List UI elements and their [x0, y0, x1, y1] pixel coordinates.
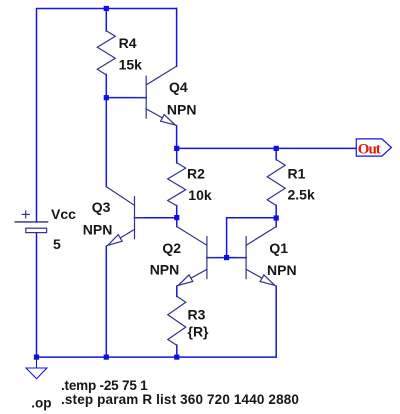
wire node between R4 and Q3 collector [105, 98, 107, 187]
junction bottom rail / Q3 emitter [104, 355, 109, 360]
wire Q4 collector riser [176, 9, 178, 67]
junction R1 bottom / Q1 collector [274, 215, 279, 220]
junction R4 bottom / Q4 base [104, 95, 109, 100]
wire Q4 emitter drop [176, 126, 178, 149]
svg-text:Q2: Q2 [162, 240, 181, 256]
wire bottom rail and Q1 emitter drop [37, 286, 277, 357]
wire Q4 base [106, 97, 146, 99]
svg-text:.step param R list 360 720 144: .step param R list 360 720 1440 2880 [61, 392, 299, 407]
transistor Q3 (mirrored) [106, 187, 143, 247]
wire R2 bottom lead [176, 206, 178, 218]
junction bottom rail / R3 bottom [174, 355, 179, 360]
svg-text:Q3: Q3 [92, 199, 111, 215]
wire Q1 collector riser [275, 218, 277, 227]
svg-text:R1: R1 [288, 166, 306, 182]
svg-text:Out: Out [358, 142, 381, 158]
wire left rail lower [36, 233, 38, 357]
svg-text:Q1: Q1 [269, 240, 288, 256]
wire Q3 emitter drop [105, 246, 107, 357]
svg-text:2.5k: 2.5k [288, 187, 315, 203]
out port flag [356, 139, 391, 156]
wire Q2 Q1 bases [207, 257, 246, 259]
resistor R3 [168, 296, 186, 345]
wire R4 top lead [105, 9, 107, 32]
wire R4 bottom lead [105, 75, 107, 98]
ground [26, 357, 47, 379]
junction Q4 emitter / R2 top [174, 146, 179, 151]
svg-text:Q4: Q4 [169, 79, 188, 95]
junction top rail / R4 top [104, 6, 109, 11]
svg-text:15k: 15k [119, 57, 143, 73]
svg-text:5: 5 [53, 236, 61, 252]
svg-text:NPN: NPN [83, 221, 113, 237]
wire bases tee [227, 218, 277, 258]
wire Q2 emitter to R3 [176, 286, 178, 296]
resistor R1 [267, 160, 285, 206]
wire Q3 base [135, 217, 177, 219]
wire R3 bottom lead [176, 345, 178, 357]
junction R2 bottom / Q3 base / Q2 collector [174, 215, 179, 220]
wire mid rail to Out [177, 147, 357, 149]
svg-text:NPN: NPN [167, 102, 197, 118]
wire R1 bottom lead [275, 205, 277, 218]
svg-text:{R}: {R} [188, 324, 210, 340]
svg-text:Vcc: Vcc [51, 206, 76, 222]
battery V1 plus sign [22, 211, 29, 218]
transistor Q2 (mirrored) [177, 227, 216, 287]
junction mid rail / R1 top [274, 146, 279, 151]
svg-text:R4: R4 [119, 35, 137, 51]
battery V1 bottom plate [26, 228, 47, 232]
resistor R2 [168, 163, 186, 206]
svg-text:R2: R2 [187, 166, 205, 182]
wire Q2 collector riser [176, 218, 178, 227]
battery V1 top plate [15, 221, 47, 223]
transistor Q4 [137, 66, 176, 126]
wire top rail and left rail [37, 9, 177, 222]
junction Q2 Q1 bases [224, 255, 229, 260]
transistor Q1 [237, 227, 276, 287]
svg-text:.temp -25 75 1: .temp -25 75 1 [61, 378, 148, 393]
svg-text:.op: .op [31, 396, 51, 411]
svg-text:R3: R3 [188, 306, 206, 322]
wire R1 top lead [275, 148, 277, 159]
junction bottom rail / ground / battery minus [34, 355, 39, 360]
wire R2 top lead [176, 148, 178, 163]
svg-text:NPN: NPN [150, 262, 180, 278]
resistor R4 [97, 31, 115, 75]
svg-text:10k: 10k [188, 187, 212, 203]
svg-text:NPN: NPN [267, 262, 297, 278]
